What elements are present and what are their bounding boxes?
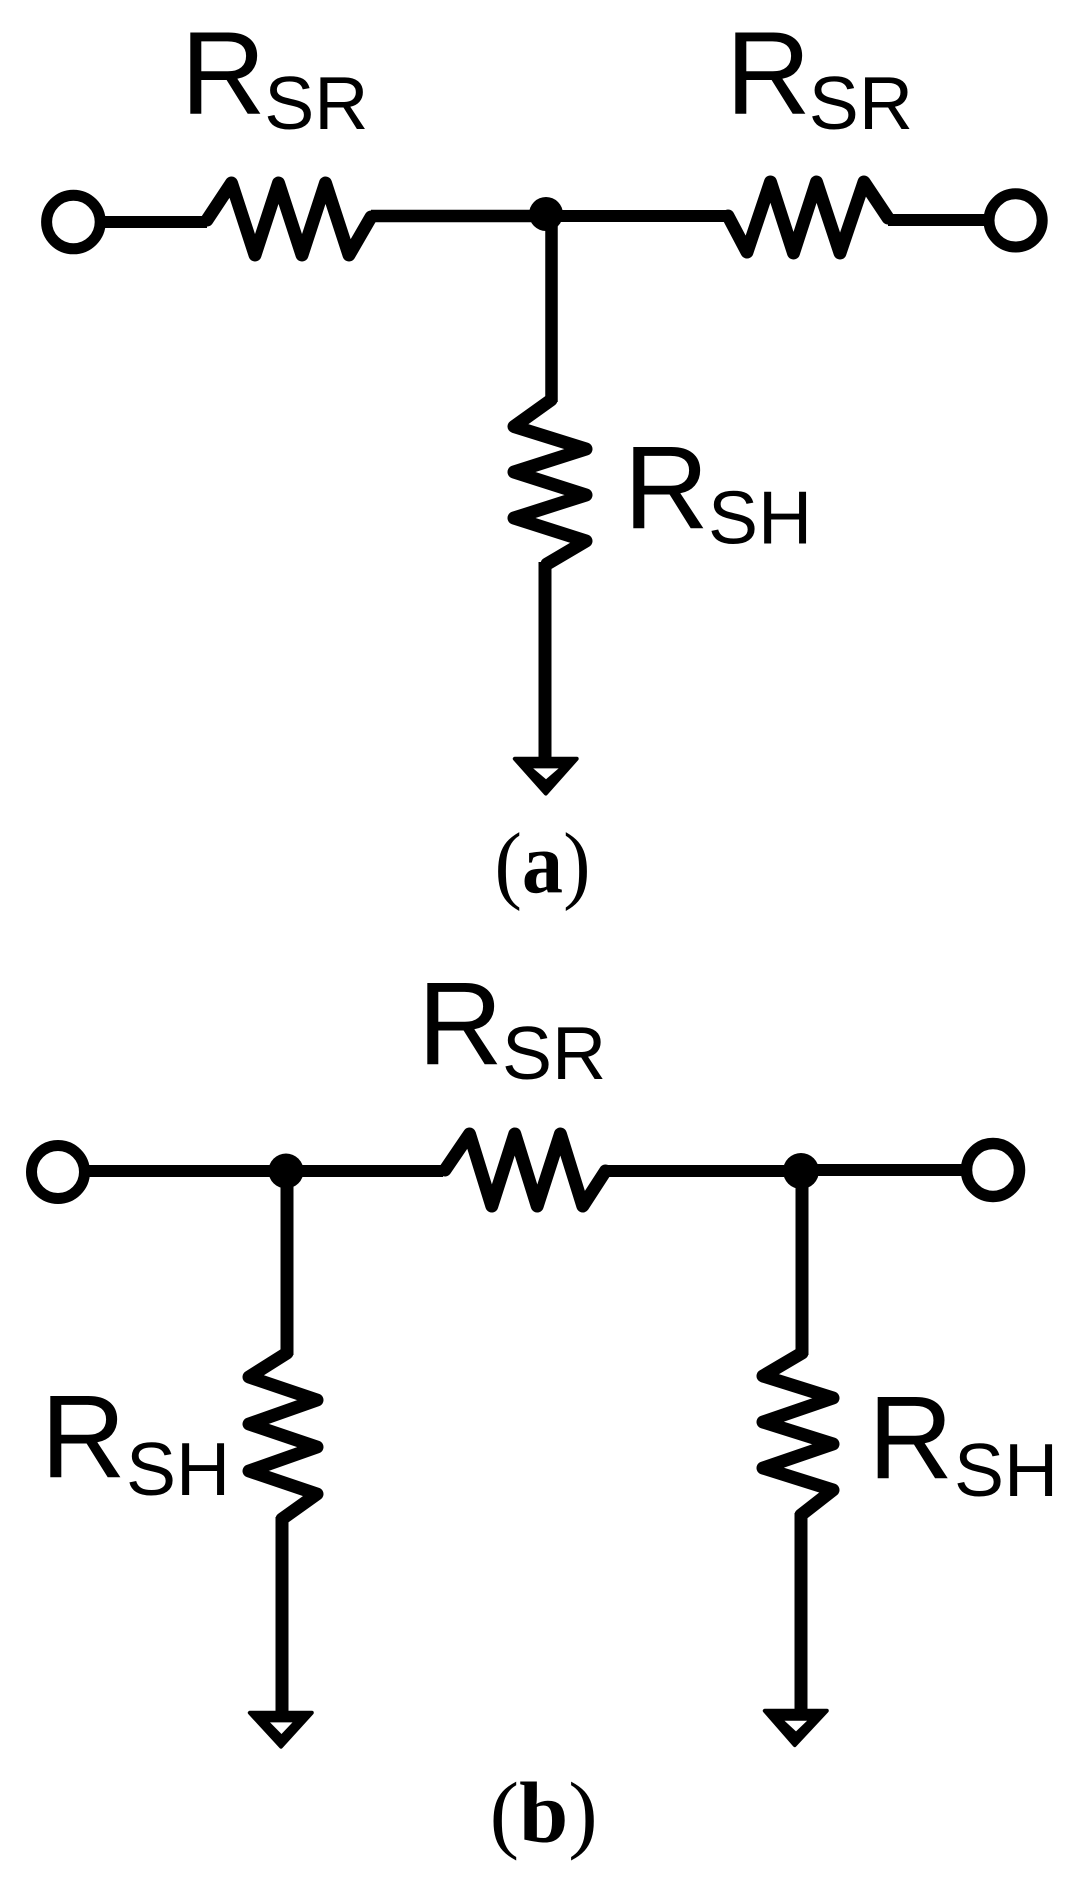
svg-text:(a): (a) [495, 815, 591, 912]
svg-text:R: R [726, 8, 811, 140]
svg-text:SH: SH [954, 1428, 1058, 1512]
svg-text:(b): (b) [490, 1764, 598, 1861]
svg-text:SR: SR [264, 61, 368, 145]
svg-text:SH: SH [708, 476, 812, 560]
svg-text:R: R [868, 1372, 953, 1504]
svg-text:R: R [181, 8, 266, 140]
svg-text:R: R [624, 422, 709, 554]
svg-text:SR: SR [809, 61, 913, 145]
svg-text:R: R [418, 958, 503, 1090]
svg-text:SR: SR [502, 1011, 606, 1095]
svg-text:R: R [41, 1371, 126, 1503]
svg-text:SH: SH [126, 1427, 230, 1511]
